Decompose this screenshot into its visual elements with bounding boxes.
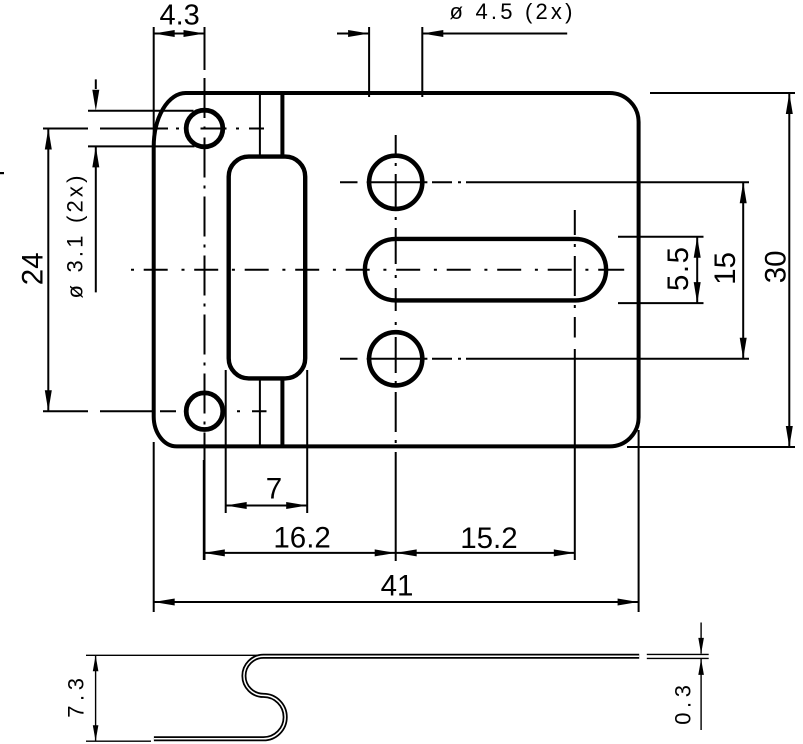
svg-text:7.3: 7.3 (63, 673, 88, 717)
dim 24 line and arrows (47, 129, 49, 412)
centerline vertical x=574.8 (574, 210, 576, 338)
dim 16.2 line and arrows (203, 460, 205, 560)
dim 7 line and arrows (226, 505, 308, 507)
svg-text:ø 4.5 (2x): ø 4.5 (2x) (450, 0, 576, 24)
svg-text:16.2: 16.2 (273, 521, 330, 554)
dim dia4.5 lines and arrows (337, 33, 567, 35)
dim dia4.5 ext tangent lines (369, 27, 422, 97)
dim 30 ext lines (627, 93, 795, 447)
svg-text:0.3: 0.3 (671, 680, 696, 724)
hole C2 bottom-left (186, 393, 223, 430)
hole C3 top-center (369, 156, 422, 209)
dim 0.3 line and arrows (700, 623, 702, 731)
vertical slot (229, 157, 306, 379)
centerline C3 horizontal (340, 181, 749, 183)
bend line thin (259, 93, 261, 447)
dim 7 ext lines (226, 370, 308, 513)
stray mark left edge (0, 172, 4, 174)
svg-text:4.3: 4.3 (160, 0, 200, 32)
svg-text:7: 7 (266, 472, 282, 505)
hole C1 top-left (186, 110, 223, 147)
side view sheet profile (154, 656, 639, 739)
svg-text:5.5: 5.5 (662, 245, 695, 291)
svg-text:15: 15 (709, 252, 742, 285)
dim 4.3 ext line left (153, 27, 155, 150)
svg-text:24: 24 (17, 252, 50, 285)
plate outline (154, 93, 639, 446)
dim 30 line and arrows (788, 93, 790, 447)
dim 15 line and arrows (742, 182, 744, 358)
svg-text:30: 30 (760, 250, 793, 283)
dim 7.3 ext lines (86, 654, 259, 656)
svg-text:ø 3.1 (2x): ø 3.1 (2x) (63, 172, 88, 298)
dim 15.2 line and arrows (396, 552, 575, 554)
centerline vertical x=204.5 (204, 27, 206, 70)
dim 41 ext lines (154, 430, 639, 612)
svg-text:15.2: 15.2 (460, 522, 517, 555)
dim 5.5 line and arrows (696, 237, 698, 303)
hole C4 bottom-center (369, 332, 422, 385)
dim 4.3 line and arrows (154, 33, 205, 35)
dim 0.3 ext lines (647, 654, 709, 658)
dim dia3.1 leader and arrows (95, 79, 97, 292)
centerline horizontal main (131, 269, 624, 271)
dim dia3.1 ext lines (88, 111, 195, 147)
dim 7.3 line and arrows (95, 655, 97, 741)
centerline C4 horizontal (340, 358, 749, 360)
horizontal slot (365, 239, 606, 301)
centerline C1 horizontal (43, 128, 264, 130)
bend edge thick (280, 93, 284, 447)
svg-text:41: 41 (381, 570, 414, 603)
dim 41 line and arrows (154, 601, 639, 603)
centerline C2 horizontal (43, 410, 267, 412)
dim 5.5 ext lines (618, 237, 704, 303)
centerline vertical x=395.7 (395, 135, 397, 443)
